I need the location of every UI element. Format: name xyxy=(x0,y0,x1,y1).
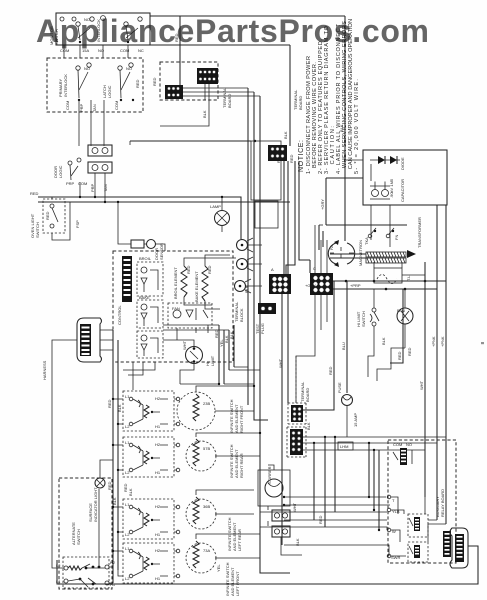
infinite switch row 2 xyxy=(123,437,174,477)
fan relay K4 xyxy=(168,303,212,328)
svg-text:DIODE: DIODE xyxy=(400,157,405,170)
svg-text:NO: NO xyxy=(126,66,132,71)
wires terminals to buses xyxy=(246,245,263,286)
svg-text:+PNK: +PNK xyxy=(440,336,445,347)
svg-text:H2: H2 xyxy=(155,548,161,553)
svg-text:COM: COM xyxy=(65,101,70,110)
terminal board connector P1 xyxy=(197,68,218,84)
high voltage box xyxy=(363,150,447,205)
svg-text:BLU: BLU xyxy=(341,342,346,350)
auxiliary relay board dashed box xyxy=(388,440,456,563)
svg-text:PRP: PRP xyxy=(90,183,95,192)
wires hv box xyxy=(345,160,390,247)
edge connector xyxy=(443,528,468,568)
wires grid2 down xyxy=(296,295,327,403)
svg-text:RED: RED xyxy=(107,399,112,408)
wires fan relay xyxy=(177,325,208,340)
svg-text:BOARD: BOARD xyxy=(305,388,310,402)
interlock drop wires xyxy=(78,100,80,146)
oven lamp xyxy=(210,204,230,226)
svg-text:LEFT REAR: LEFT REAR xyxy=(237,529,242,551)
svg-text:PRP: PRP xyxy=(79,103,84,112)
wire vertical x425 WHT xyxy=(424,262,426,497)
svg-text:TAN: TAN xyxy=(103,184,108,192)
hi-limit switch xyxy=(356,289,386,377)
wires row3 xyxy=(113,490,254,532)
alternate switch contacts xyxy=(52,489,116,588)
wire vertical x437 PNK xyxy=(436,205,438,520)
oven light switch xyxy=(30,199,65,238)
svg-text:RED: RED xyxy=(289,154,294,163)
wires harness xyxy=(52,330,113,558)
diode CR1 xyxy=(370,156,405,170)
svg-text:TRANSFORMER: TRANSFORMER xyxy=(417,217,422,248)
wire staircase fan xyxy=(377,348,405,381)
wires hi-limit cluster xyxy=(163,340,194,384)
relay RY1 xyxy=(393,442,412,465)
surface indicator light xyxy=(88,478,105,522)
svg-text:BROIL ELEMENT: BROIL ELEMENT xyxy=(173,267,178,299)
terminal circle B xyxy=(237,257,254,271)
wires control to buses xyxy=(123,362,155,390)
svg-text:73A: 73A xyxy=(203,548,210,553)
wire vertical bus x248 xyxy=(247,88,249,405)
wire vertical x403 RED xyxy=(390,289,403,363)
door logic switch xyxy=(53,158,87,186)
svg-text:BLK: BLK xyxy=(244,285,249,293)
svg-text:RED: RED xyxy=(407,347,412,356)
svg-text:SWITCH: SWITCH xyxy=(361,311,366,327)
harness connector xyxy=(77,318,102,362)
relay K2 xyxy=(137,295,163,328)
svg-text:BOARD: BOARD xyxy=(298,96,303,110)
svg-text:LOGIC: LOGIC xyxy=(58,165,63,178)
svg-text:H2: H2 xyxy=(155,504,161,509)
wire oven light to bus xyxy=(52,197,70,240)
main horizontal bus lower xyxy=(38,201,290,203)
svg-text:AppliancePartsPros.com: AppliancePartsPros.com xyxy=(36,13,429,49)
latch box lower xyxy=(255,201,278,228)
wires row1 xyxy=(113,386,254,424)
svg-text:L1: L1 xyxy=(56,579,61,584)
svg-text:CAPACITOR: CAPACITOR xyxy=(400,179,405,202)
terminal board grid A xyxy=(288,403,306,424)
svg-text:FA: FA xyxy=(329,245,334,250)
wire drops RED YEL BLK BLK xyxy=(219,325,234,384)
wires aux board xyxy=(284,497,446,556)
svg-text:TAN: TAN xyxy=(92,104,97,112)
svg-text:L2: L2 xyxy=(56,563,61,568)
wire magnetron top run xyxy=(319,225,407,250)
svg-text:+PRP: +PRP xyxy=(350,283,361,288)
svg-text:WHT: WHT xyxy=(278,358,283,368)
wire BLU fuse feed xyxy=(346,281,348,393)
wire drops mid xyxy=(314,437,335,527)
fan motor xyxy=(397,289,413,356)
wire bottom run xyxy=(57,546,478,584)
svg-text:T.L.: T.L. xyxy=(406,275,411,281)
svg-text:PLUG: PLUG xyxy=(260,323,265,334)
wire vertical bus x254 xyxy=(254,92,268,420)
svg-text:BLK: BLK xyxy=(128,488,133,496)
svg-text:57B: 57B xyxy=(203,446,210,451)
svg-text:BLK: BLK xyxy=(229,331,234,339)
stirrer motor xyxy=(258,466,290,506)
element right front xyxy=(176,392,215,430)
primary interlock switch xyxy=(58,63,91,101)
svg-text:FAN: FAN xyxy=(172,306,180,311)
aux board terminals xyxy=(387,495,391,499)
element left rear xyxy=(176,497,216,534)
LHM label box xyxy=(338,442,353,450)
wire hbus y289 xyxy=(333,288,437,290)
svg-text:H1: H1 xyxy=(155,532,161,537)
test plug xyxy=(255,303,276,334)
svg-text:36B: 36B xyxy=(203,504,210,509)
wire vertical bus x288 xyxy=(287,161,289,403)
svg-text:RED: RED xyxy=(107,481,112,490)
svg-text:RED: RED xyxy=(45,211,50,220)
wires elements to terminals xyxy=(184,255,236,309)
svg-text:INTERLOCK: INTERLOCK xyxy=(63,74,68,97)
svg-text:BAKE: BAKE xyxy=(139,295,150,300)
terminal board grid B xyxy=(287,427,306,457)
wire vertical x446 PNK xyxy=(445,205,447,524)
svg-text:BROIL: BROIL xyxy=(139,256,152,261)
wire x345 BLK drop to magnetron xyxy=(344,16,346,241)
svg-text:COM: COM xyxy=(114,101,119,110)
wires lower center runs xyxy=(260,497,390,527)
svg-text:H1: H1 xyxy=(155,470,161,475)
stirrer connector B xyxy=(272,526,300,546)
main horizontal bus RED xyxy=(38,197,241,239)
wires terminal board to buses xyxy=(183,88,260,96)
svg-text:LHM: LHM xyxy=(340,444,348,449)
wires light xyxy=(100,460,113,478)
svg-text:RELAY BOARD: RELAY BOARD xyxy=(440,489,445,517)
svg-text:RED: RED xyxy=(135,79,140,88)
svg-text:CONTROL: CONTROL xyxy=(117,305,122,325)
primary interlock / latch logic dashed box xyxy=(47,58,143,112)
wires row4 xyxy=(113,534,260,576)
oven hi-limit thermostat xyxy=(182,340,215,366)
wire vertical bus x118 BLK xyxy=(117,340,119,570)
wire x290 drop xyxy=(289,45,291,146)
latch logic switch xyxy=(102,63,134,101)
svg-text:A: A xyxy=(271,267,274,272)
wire drops from connectors xyxy=(80,173,105,202)
svg-text:LAMP: LAMP xyxy=(210,204,221,209)
svg-text:BLK: BLK xyxy=(112,497,117,505)
wires row2 xyxy=(113,433,260,470)
latch box right xyxy=(251,141,281,200)
wires cluster feeds xyxy=(163,325,260,384)
terminal circle A xyxy=(237,238,254,252)
wire RED drop x180 xyxy=(179,16,181,85)
capacitor C1 xyxy=(370,178,405,202)
svg-text:LEFT FRONT: LEFT FRONT xyxy=(235,571,240,596)
svg-text:YEL: YEL xyxy=(216,564,221,572)
svg-text:NO: NO xyxy=(84,66,90,71)
wire fuse down xyxy=(346,405,348,437)
wire top bus to BLK drop xyxy=(150,15,345,17)
wire vertical bus x299 xyxy=(299,161,310,273)
svg-text:SWITCH: SWITCH xyxy=(76,529,81,545)
svg-text:H2: H2 xyxy=(155,396,161,401)
svg-text:FSP: FSP xyxy=(75,220,80,228)
svg-text:WHT: WHT xyxy=(292,502,297,512)
wire vertical bus x284 WHT xyxy=(282,161,284,545)
svg-text:H1: H1 xyxy=(155,576,161,581)
wire lamp xyxy=(221,197,223,232)
relay RY3 xyxy=(408,542,428,562)
infinite switch row 1 xyxy=(123,391,174,431)
svg-text:SWITCH: SWITCH xyxy=(35,222,40,238)
door connector pair A xyxy=(88,145,112,156)
terminal board dashed box xyxy=(160,62,218,100)
element right rear xyxy=(176,439,216,472)
svg-text:15 AMP: 15 AMP xyxy=(353,413,358,427)
control ribbon connector xyxy=(122,256,132,302)
svg-text:BLK: BLK xyxy=(283,131,288,139)
terminal block grid 1 xyxy=(269,267,291,294)
svg-text:23B: 23B xyxy=(203,401,210,406)
svg-text:FUSE: FUSE xyxy=(337,382,342,393)
svg-text:RED: RED xyxy=(214,329,219,338)
magnetron xyxy=(328,240,363,267)
svg-text:BLK: BLK xyxy=(381,337,386,345)
terminal circle C xyxy=(235,279,252,293)
stirrer connector A xyxy=(272,502,297,521)
svg-text:BAKE ELEMENT: BAKE ELEMENT xyxy=(194,271,199,302)
notice text block xyxy=(298,19,360,174)
transformer xyxy=(366,217,422,263)
svg-text:LOGIC: LOGIC xyxy=(107,85,112,98)
wire RED x334 xyxy=(303,281,334,410)
element left front xyxy=(176,541,216,578)
infinite switch row 4 xyxy=(123,543,174,583)
top monitor pin circles xyxy=(60,16,105,22)
svg-text:+PNK: +PNK xyxy=(431,336,436,347)
door sensor xyxy=(131,240,164,261)
svg-text:WHT: WHT xyxy=(419,380,424,390)
monitor switch box S1 xyxy=(56,13,150,45)
infinite switch row 3 xyxy=(123,499,174,539)
svg-text:RED: RED xyxy=(328,366,333,375)
svg-text:BLK: BLK xyxy=(117,404,122,412)
svg-text:RED: RED xyxy=(186,265,191,274)
wire door sensor xyxy=(118,202,165,251)
transformer filament winding xyxy=(374,268,411,284)
svg-text:+GRY: +GRY xyxy=(320,199,325,210)
terminal board connector P2 xyxy=(165,85,183,99)
svg-text:RED: RED xyxy=(152,77,157,86)
surface area dashed box xyxy=(59,478,112,589)
svg-text:RIGHT REAR: RIGHT REAR xyxy=(239,453,244,478)
fuse F1 xyxy=(337,382,358,427)
svg-text:TKA: TKA xyxy=(364,237,369,245)
svg-text:C: C xyxy=(313,266,316,271)
wires filament xyxy=(374,262,425,275)
svg-text:BLK: BLK xyxy=(306,422,311,430)
wires grid2 verticals up xyxy=(315,225,327,273)
relay RY2 xyxy=(408,514,428,537)
monitor box drops xyxy=(64,45,128,58)
svg-text:LIMIT: LIMIT xyxy=(210,355,215,366)
wire vertical bus x260 xyxy=(260,96,290,573)
svg-text:NO: NO xyxy=(406,442,412,447)
svg-text:H2: H2 xyxy=(110,560,116,565)
svg-text:RIGHT FRONT: RIGHT FRONT xyxy=(239,405,244,433)
wire vertical bus x113 RED xyxy=(112,330,114,583)
wire vertical bus x295 xyxy=(286,161,295,274)
svg-text:BLK: BLK xyxy=(202,110,207,118)
svg-text:COM: COM xyxy=(393,442,402,447)
wire y141 run xyxy=(130,140,251,142)
svg-text:H1: H1 xyxy=(155,424,161,429)
svg-text:BLOCK: BLOCK xyxy=(239,308,244,322)
svg-text:H2: H2 xyxy=(155,442,161,447)
wire bottom bus to x290 drop xyxy=(150,44,290,46)
relay K3 xyxy=(137,331,163,358)
wires stirrer xyxy=(268,465,302,555)
wire drops to relay terminals xyxy=(369,443,379,530)
svg-text:WHT: WHT xyxy=(182,340,187,350)
svg-text:PRP: PRP xyxy=(66,181,75,186)
svg-text:.90kV 1M5: .90kV 1M5 xyxy=(389,178,394,198)
door connector pair B xyxy=(88,162,112,173)
wire magnetron heater pair xyxy=(330,254,366,258)
svg-text:COM: COM xyxy=(78,181,87,186)
relay K1 xyxy=(137,256,163,296)
svg-text:RED: RED xyxy=(207,265,212,274)
terminal block grid 2 xyxy=(310,266,333,295)
bake element xyxy=(194,265,212,302)
svg-text:HARNESS: HARNESS xyxy=(42,360,47,380)
svg-text:MAGNETRON: MAGNETRON xyxy=(358,240,363,266)
control board dashed box xyxy=(113,251,233,362)
wire hbus y281 xyxy=(333,280,446,282)
svg-text:+GRY: +GRY xyxy=(305,283,316,288)
wires from terminal boards xyxy=(303,410,446,450)
svg-text:INDICATOR LIGHT: INDICATOR LIGHT xyxy=(93,487,98,522)
svg-text:RED: RED xyxy=(397,351,402,360)
magnetron cathode contacts xyxy=(364,228,399,245)
svg-text:RED: RED xyxy=(30,191,39,196)
scan artifact tick xyxy=(481,342,484,344)
broil element xyxy=(173,265,191,299)
connector J3 xyxy=(268,145,287,161)
svg-text:FN: FN xyxy=(394,235,399,240)
wire +GRY feed xyxy=(326,178,363,225)
